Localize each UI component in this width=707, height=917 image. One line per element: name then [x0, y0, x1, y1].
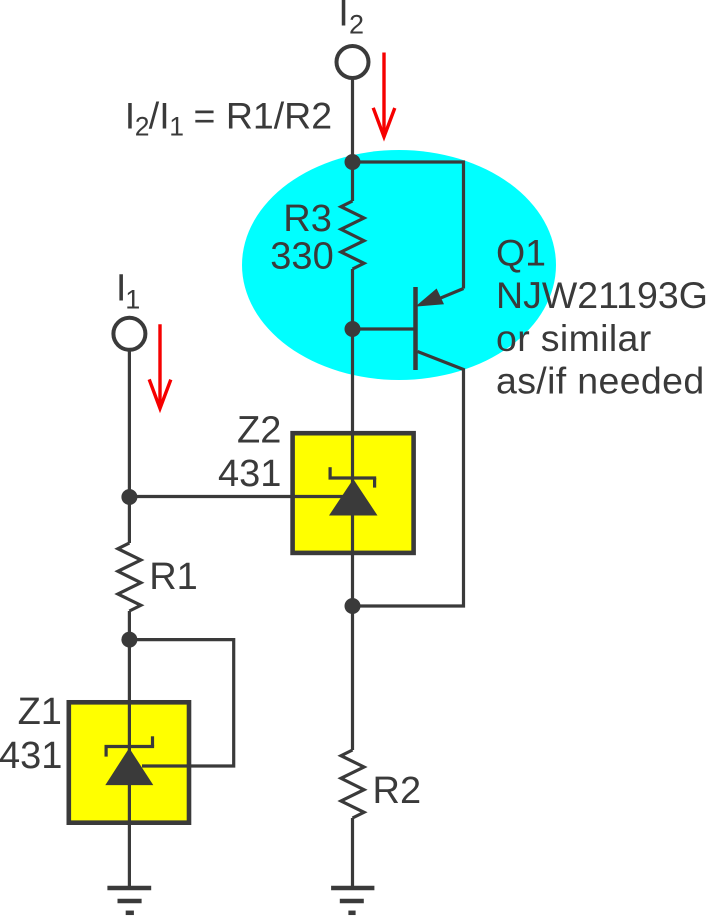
junction node I1/Z2ref: [121, 489, 137, 505]
svg-text:2: 2: [349, 10, 364, 40]
formula I2/I1 = R1/R2: [125, 94, 332, 141]
wire: I1 terminal down through R1, Z1 to ground: [128, 349, 131, 543]
svg-text:1: 1: [169, 111, 184, 141]
zener Z2 symbol: [329, 467, 377, 487]
svg-text:Q1: Q1: [496, 232, 546, 274]
resistor R1: [118, 543, 141, 611]
Q1 arrow head: [415, 289, 444, 307]
wire: I2 terminal to R3 top: [351, 78, 354, 202]
svg-text:431: 431: [218, 453, 281, 495]
svg-text:I: I: [338, 0, 349, 35]
junction node R1/Z1: [121, 632, 137, 648]
svg-text:as/if needed: as/if needed: [496, 360, 705, 402]
TL431 Z1 yellow box: [69, 702, 189, 822]
svg-text:or similar: or similar: [496, 317, 652, 359]
svg-text:/I: /I: [149, 94, 170, 136]
svg-text:= R1/R2: = R1/R2: [194, 94, 333, 136]
svg-text:R2: R2: [373, 770, 422, 812]
svg-text:431: 431: [0, 735, 62, 777]
svg-text:R1: R1: [149, 556, 198, 598]
resistor R3: [341, 201, 364, 269]
wire: node to Z2 ref: [129, 495, 352, 498]
wire: R3 bottom through Z2 to R2 top: [351, 269, 354, 750]
resistor R2: [341, 750, 364, 818]
red arrow I2: [373, 53, 395, 137]
wire: base to center node: [353, 327, 414, 330]
svg-text:Z1: Z1: [18, 691, 62, 733]
junction node emitter: [345, 598, 361, 614]
ground under R2: [331, 888, 374, 913]
wire: Q1 collector diagonal to base bar: [433, 289, 464, 302]
junction node top: [345, 154, 361, 170]
wire: R2 bottom to ground: [351, 818, 354, 888]
svg-text:NJW21193G: NJW21193G: [496, 274, 707, 316]
zener Z1 symbol: [105, 736, 155, 756]
wire: Q1 emitter diagonal and down to node: [353, 352, 464, 607]
wire: Z1 feedback loop: [129, 640, 233, 766]
svg-text:I: I: [125, 94, 135, 136]
svg-text:1: 1: [125, 284, 140, 314]
svg-text:Z2: Z2: [237, 410, 281, 452]
svg-text:R3: R3: [283, 198, 332, 240]
I1 terminal circle: [113, 318, 145, 350]
svg-text:330: 330: [270, 236, 333, 278]
I2 terminal circle: [337, 46, 369, 78]
junction node base: [345, 321, 361, 337]
label Q1 block: [496, 232, 707, 402]
wire: R1 bottom through Z1 to ground: [128, 611, 131, 888]
ground under Z1: [107, 888, 151, 913]
red arrow I1: [149, 324, 171, 408]
wire: top node to Q1 collector: [353, 162, 464, 289]
TL431 Z2 yellow box: [293, 433, 414, 553]
transistor Q1 base bar: [413, 287, 418, 370]
svg-text:2: 2: [135, 111, 150, 141]
highlight ellipse around Q1/R3: [242, 150, 556, 380]
